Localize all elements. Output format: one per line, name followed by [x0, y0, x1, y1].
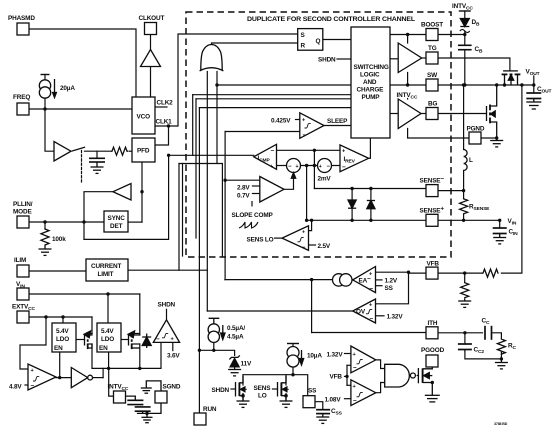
- wire ITH row: [312, 332, 426, 334]
- junction diode left top: [350, 187, 353, 190]
- wire S-R latch R row from OR gate: [212, 43, 298, 48]
- svg-text:RUN: RUN: [203, 406, 217, 413]
- wire TG driver boost rail: [407, 35, 409, 44]
- wire LDO1 gate stub: [76, 339, 85, 341]
- op-amp 4.8V EXTVCC comparator: [28, 364, 56, 390]
- junction EXTVCC comp: [44, 315, 47, 318]
- wire top FET drain to VOUT sense: [501, 85, 522, 273]
- svg-text:3788 BD: 3788 BD: [494, 422, 508, 426]
- svg-text:MODE: MODE: [13, 209, 32, 216]
- svg-text:DUPLICATE FOR SECOND CONTROLLE: DUPLICATE FOR SECOND CONTROLLER CHANNEL: [247, 16, 415, 23]
- resistor R-VFB-upper (horizontal): [482, 269, 498, 277]
- op-amp EA error amplifier (points left): [353, 267, 376, 293]
- current mirror M2: [340, 274, 352, 286]
- wire BG driver input from box: [390, 113, 398, 115]
- junction SENSE- L RSENSE: [462, 189, 465, 192]
- wire RUN bus: [198, 108, 200, 413]
- junction ICMP out drop: [167, 154, 170, 157]
- svg-text:R: R: [301, 43, 306, 50]
- box PFD: [132, 138, 155, 162]
- diode D1 (sense clamp, points down): [348, 200, 356, 208]
- wire sleep comparator minus row: [225, 131, 300, 133]
- dashed box: duplicate second controller channel: [186, 12, 451, 257]
- svg-text:−: −: [342, 164, 346, 171]
- wire PFD filter row: [85, 150, 112, 152]
- svg-text:0.7V: 0.7V: [237, 193, 250, 200]
- wire LDO2 gate stub: [121, 339, 129, 341]
- wire SS row between FETs: [243, 375, 308, 396]
- wire summing to IREV input: [332, 165, 341, 167]
- box LDO2 5.4V: [97, 323, 121, 352]
- glyph hysteresis SLEEP: [305, 124, 311, 128]
- wire PHASMD to VCO top: [29, 29, 136, 97]
- junction RC CC2 ground: [500, 357, 503, 360]
- wire BG row: [421, 113, 426, 115]
- wire PMOS1 top leg: [91, 317, 93, 334]
- wire ILIM row: [29, 270, 86, 272]
- diode D2 (sense clamp, points up): [367, 201, 375, 209]
- wire OV output row: [207, 310, 352, 312]
- wire zener to ground: [234, 367, 236, 370]
- inductor L: [464, 150, 468, 171]
- buffer B2 (pll feedback, points left): [113, 184, 131, 201]
- transistor MBOT (bottom N-channel MOSFET): [487, 85, 497, 138]
- svg-text:SLEEP: SLEEP: [327, 118, 348, 125]
- svg-text:+: +: [296, 164, 299, 170]
- wire SS pin to CSS: [315, 402, 323, 410]
- gate OR (points up, output to R): [201, 45, 222, 71]
- wire COUT stem: [533, 85, 535, 93]
- transistor M-SHDN (SS pulldown): [236, 376, 247, 401]
- wire SHDN comparator output stem: [166, 309, 168, 320]
- box SYNC DET: [104, 211, 128, 232]
- junction CLK1: [167, 124, 170, 127]
- svg-text:PFD: PFD: [137, 148, 150, 155]
- pin FREQ: [17, 103, 29, 115]
- svg-text:ILIM: ILIM: [14, 257, 26, 264]
- wire 0.5uA source bottom to RUN bus: [199, 342, 213, 350]
- pin VIN: [17, 288, 29, 300]
- svg-text:EN: EN: [99, 345, 108, 352]
- wire 4.8V comparator output to inverter: [56, 377, 71, 379]
- wire bus vertical x314.4 to SENSE- row: [313, 150, 315, 188]
- wire CIN stem: [499, 220, 501, 228]
- pin PGND: [469, 132, 481, 144]
- pin INTVCC: [114, 391, 126, 403]
- wire INTVcc feed to BG driver: [407, 98, 409, 101]
- junction 10uA SS row: [291, 373, 294, 376]
- junction VOUT COUT: [532, 83, 535, 86]
- junction RUN 0.5uA: [198, 349, 201, 352]
- junction CB SW node: [463, 83, 466, 86]
- svg-text:VFB: VFB: [330, 374, 343, 381]
- pin SENSE+: [426, 214, 438, 226]
- ground G-SGND-lower: [137, 403, 161, 423]
- junction EXTVCC LDO1: [61, 315, 64, 318]
- wire SHDN FET gate stub: [231, 388, 236, 390]
- wire RC bottom: [500, 352, 502, 360]
- svg-text:Q: Q: [316, 38, 321, 45]
- wire 10uA source to SS row: [292, 367, 294, 375]
- svg-text:−: −: [353, 398, 357, 405]
- inverter bubble: [88, 375, 93, 380]
- op-amp OV comparator (points left): [353, 299, 376, 323]
- wire SENSE- row: [314, 188, 426, 190]
- svg-text:10µA: 10µA: [307, 353, 322, 360]
- pin EXTVCC: [17, 311, 29, 323]
- svg-text:VCO: VCO: [137, 114, 151, 121]
- wire CC to RC: [492, 333, 502, 339]
- resistor R-pll (horizontal): [111, 147, 128, 155]
- wire SW row continuation: [216, 85, 218, 164]
- wire FREQ row to VCO: [29, 108, 132, 110]
- junction VIN CIN: [498, 219, 501, 222]
- arrow 0.5uA: [214, 318, 225, 339]
- wire OR gate left leg from OV comparator: [206, 71, 208, 312]
- svg-text:11V: 11V: [241, 361, 252, 368]
- svg-text:5.4V: 5.4V: [101, 328, 114, 335]
- wire ICMP plus from summing circle: [277, 165, 287, 167]
- junction top FET source: [503, 83, 506, 86]
- svg-text:PHASMD: PHASMD: [8, 15, 35, 22]
- svg-text:AND: AND: [363, 79, 377, 86]
- svg-text:−: −: [156, 336, 160, 343]
- wire SHDN into switching logic: [337, 58, 351, 60]
- wire SLEEP output to switching logic: [324, 125, 351, 127]
- op-amp PGOOD comparator A 1.32V: [351, 346, 376, 373]
- wire between summing circles: [301, 165, 318, 167]
- wire PLLIN/MODE row to SYNC DET: [29, 221, 104, 223]
- wire CC2 bottom to RC bottom: [465, 352, 502, 359]
- current source I-20uA (lower circle): [39, 87, 50, 98]
- svg-text:SHDN: SHDN: [318, 57, 336, 64]
- wire inverter out riser: [102, 368, 104, 377]
- wire CLK1 net to S row: [155, 34, 298, 126]
- junction SGND lower: [145, 412, 148, 415]
- wire buffer to VCO top: [150, 67, 152, 98]
- wire SENS LO FET drain: [285, 375, 287, 385]
- wire LDO1 top feed: [62, 317, 64, 323]
- svg-text:2mV: 2mV: [318, 176, 332, 183]
- wire OR gate right leg to SW row: [216, 71, 218, 86]
- junction ICMP IREV row: [313, 149, 316, 152]
- transistor MTOP (top N-channel MOSFET): [502, 71, 521, 85]
- capacitor C-INTVCC bypass: [126, 396, 151, 413]
- ground G-RC: [495, 359, 508, 369]
- wire SW row right of pin: [438, 84, 534, 86]
- wire INTVCC rail: [92, 342, 161, 368]
- wire SYNC DET output: [128, 221, 142, 223]
- ground G-SGND-upper: [141, 381, 161, 393]
- glyph hysteresis PGOOD A: [357, 359, 363, 363]
- svg-text:CLKOUT: CLKOUT: [139, 15, 165, 22]
- wire CLK2 stub: [155, 106, 167, 108]
- junction inductor SW node: [462, 83, 465, 86]
- arrow slope comp into summing: [291, 173, 295, 179]
- junction PLLIN 100k: [43, 220, 46, 223]
- junction FREQ/20uA: [43, 107, 46, 110]
- junction summing mid a: [305, 164, 308, 167]
- wire LDO2 EN stub: [108, 352, 110, 368]
- svg-text:OV: OV: [356, 309, 366, 316]
- svg-text:SW: SW: [427, 72, 438, 79]
- junction rail PMOS2: [138, 367, 141, 370]
- ground G-100k: [39, 246, 52, 255]
- wire BG pin to bottom FET gate: [438, 113, 487, 115]
- svg-text:−: −: [271, 148, 275, 155]
- pin VFB: [426, 267, 438, 279]
- resistor RSENSE: [460, 198, 468, 214]
- ground G-CIN: [493, 234, 506, 244]
- ground G-PGOOD-FET: [425, 395, 440, 402]
- current mirror M1: [333, 274, 345, 286]
- wire bus row y107.6: [199, 107, 351, 109]
- wire row B branch: [182, 164, 184, 257]
- wire DB diode top feed: [464, 11, 466, 18]
- svg-text:−: −: [370, 316, 374, 323]
- pin SS: [303, 396, 315, 408]
- svg-text:TG: TG: [428, 45, 437, 52]
- resistor R-VFB-lower: [461, 282, 469, 298]
- junction 0.5uA zener: [212, 349, 215, 352]
- junction VFB comparators: [345, 375, 348, 378]
- wire filter cap stem: [96, 151, 98, 158]
- current source I-RUN 0.5uA (lower circle): [208, 331, 219, 342]
- wire DB to boost node: [464, 32, 466, 46]
- wire PGND pin to bottom FET source: [481, 137, 497, 139]
- wire SENS LO 2.5V stub: [309, 244, 316, 246]
- wire RSENSE bottom to VIN row: [463, 214, 465, 220]
- capacitor COUT: [526, 93, 541, 99]
- wire ITH drop: [311, 280, 313, 333]
- wire INTVCC pin riser: [109, 368, 114, 396]
- transistor M-PGOOD (open drain): [418, 367, 432, 395]
- ground G-CSS: [316, 414, 329, 424]
- diode DB (INTVCC bootstrap): [460, 19, 470, 33]
- svg-text:L: L: [469, 157, 473, 164]
- wire ICMP output riser: [192, 95, 194, 156]
- svg-text:2.8V: 2.8V: [237, 185, 250, 192]
- wire LDO1 EN stub: [59, 352, 61, 378]
- junction 4.8V out EN: [58, 376, 61, 379]
- wire SENSE+ row to VIN node: [438, 219, 500, 221]
- wire CLKOUT pin to buffer: [150, 35, 152, 50]
- junction boost rail TG driver: [406, 33, 409, 36]
- svg-text:3.6V: 3.6V: [167, 353, 180, 360]
- wire PMOS2 drain to rail: [139, 344, 141, 368]
- box SWITCHING LOGIC AND CHARGE PUMP: [351, 27, 390, 138]
- svg-text:CURRENT: CURRENT: [91, 263, 121, 270]
- amp SLOPE COMP: [260, 177, 284, 203]
- junction DB CB node: [463, 33, 466, 36]
- transistor P1 (EXTVCC PMOS pass): [84, 331, 92, 349]
- ground G-SHDN-FET: [237, 401, 250, 407]
- ground G-PGND: [490, 138, 503, 147]
- wire PGOOD comp B to NAND: [376, 383, 385, 393]
- current source I-20uA (upper circle): [39, 80, 50, 91]
- wire NAND out to PGOOD FET gate: [417, 375, 418, 377]
- svg-text:2.5V: 2.5V: [318, 243, 331, 250]
- svg-text:SENS: SENS: [254, 385, 272, 392]
- junction rail EN2: [107, 367, 110, 370]
- component shapes: [17, 23, 481, 426]
- junction RSENSE VIN row: [462, 219, 465, 222]
- svg-text:SENS LO: SENS LO: [247, 237, 274, 244]
- glyph hysteresis SENS LO: [298, 237, 304, 241]
- summing node S2 2mV: [318, 159, 332, 173]
- ground G-COUT: [526, 99, 541, 110]
- wire buffer2 output down: [84, 192, 113, 240]
- wire slope comp 0.7V stub: [253, 193, 260, 195]
- svg-text:1.08V: 1.08V: [325, 397, 342, 404]
- svg-text:LIMIT: LIMIT: [98, 271, 114, 278]
- svg-text:PLLIN/: PLLIN/: [13, 201, 33, 208]
- junction ITH CC: [463, 331, 466, 334]
- op-amp SENS LO comparator (points left): [282, 226, 309, 251]
- svg-text:BOOST: BOOST: [421, 22, 443, 29]
- resistor RC: [497, 339, 505, 355]
- glyph hysteresis 4.8V: [33, 377, 39, 381]
- wire IREV output to switching logic bottom: [369, 138, 371, 158]
- wire bus row y94.7: [193, 94, 351, 96]
- svg-text:CLK2: CLK2: [157, 100, 174, 107]
- tick INTVCC supply bar (DB): [459, 10, 471, 12]
- svg-text:20µA: 20µA: [60, 85, 75, 92]
- svg-text:VFB: VFB: [427, 261, 440, 268]
- glyph slope comp bottom input hook: [251, 201, 253, 207]
- wire TG driver sw rail: [407, 73, 409, 86]
- diode Z1 zener 11V: [229, 355, 239, 367]
- buffer U-CLKOUT (triangle up): [141, 50, 161, 67]
- junction SENS LO drop: [310, 219, 313, 222]
- wire zener feed: [214, 350, 235, 355]
- wire TG row: [422, 57, 426, 59]
- wire bus vertical x196: [195, 99, 197, 238]
- wire VOUT tick: [533, 76, 535, 85]
- wire TG driver input stub: [390, 58, 398, 60]
- wire EXTVCC row: [29, 316, 92, 318]
- capacitor CSS: [316, 410, 330, 414]
- wire ITH pin to compensation: [438, 332, 483, 334]
- junction SENS LO FET body: [284, 394, 288, 398]
- svg-text:LOGIC: LOGIC: [360, 72, 380, 79]
- svg-text:−: −: [353, 365, 357, 372]
- wire 1.32V stub to PGOOD comparator: [345, 353, 351, 355]
- wire SENSE- pin to inductor junction: [438, 190, 464, 192]
- wire CURRENT LIMIT output: [128, 269, 207, 271]
- svg-text:SHDN: SHDN: [158, 302, 176, 309]
- wire 4.8V ref stub: [25, 384, 28, 386]
- svg-text:−: −: [370, 286, 374, 293]
- pin SGND: [155, 391, 167, 403]
- wire SENS LO output to label: [275, 237, 283, 239]
- arrow 10uA: [299, 350, 303, 365]
- ground G-pll (loop filter): [89, 158, 105, 173]
- wire VFB divider lower resistor stem: [464, 273, 466, 282]
- wire PMOS2 top feed: [139, 294, 141, 335]
- wire inductor to sense junction: [463, 170, 465, 198]
- wire VFB label bracket: [345, 375, 348, 377]
- wire dashed switch control: [81, 151, 83, 183]
- capacitor CC2: [458, 344, 472, 352]
- driver TG: [398, 43, 422, 73]
- wire EA SS stub: [376, 285, 383, 287]
- pin ITH: [426, 327, 438, 339]
- wire summing to SENSE+ drop: [306, 166, 308, 221]
- resistor R-100k (vertical): [41, 228, 49, 246]
- wire EA 1.2V stub: [376, 279, 383, 281]
- wire BOOST pin to bootstrap node: [438, 34, 465, 36]
- wire PMOS2 legs link: [132, 334, 140, 336]
- svg-text:SHDN: SHDN: [212, 387, 230, 394]
- svg-text:PUMP: PUMP: [362, 94, 381, 101]
- junction diode right bottom: [369, 219, 372, 222]
- tick 10uA supply bar: [287, 343, 299, 345]
- ground G-VFB-divider: [458, 298, 471, 307]
- wire VFB pin row: [409, 272, 427, 274]
- wire 3.6V ref stub: [172, 342, 174, 350]
- svg-text:−: −: [303, 132, 307, 139]
- wire VIN row to LDOs: [29, 293, 140, 295]
- svg-text:0.5µA/: 0.5µA/: [227, 325, 245, 332]
- wire TG pin to top FET gate: [438, 58, 510, 71]
- wire 20uA source to FREQ row: [44, 98, 46, 109]
- junction PLLIN buffer2: [82, 220, 85, 223]
- glyph hysteresis PGOOD B: [357, 392, 363, 396]
- junction EA row ITH drop: [310, 278, 313, 281]
- op-amp SLEEP comparator 0.425V: [300, 113, 324, 139]
- tick 0.5uA supply bar: [209, 317, 220, 319]
- wire slope comp output into summing circle: [284, 174, 294, 189]
- glyph sawtooth slope comp: [239, 222, 258, 228]
- wire BOOST row from switching logic: [390, 34, 426, 36]
- wire SHDN FET drain: [242, 375, 244, 385]
- svg-text:SLOPE COMP: SLOPE COMP: [232, 212, 274, 219]
- svg-text:−: −: [31, 383, 35, 390]
- capacitor CIN: [493, 228, 507, 234]
- svg-text:100k: 100k: [52, 236, 66, 243]
- wire CLK1 feedback to PFD: [155, 126, 169, 145]
- junction buffer2 input: [140, 190, 143, 193]
- svg-text:SWITCHING: SWITCHING: [354, 64, 389, 71]
- capacitor CB bootstrap: [458, 45, 472, 49]
- svg-text:5.4V: 5.4V: [56, 328, 69, 335]
- pin BG: [426, 108, 438, 120]
- wire SHDN FET source to ground: [242, 394, 244, 402]
- svg-text:PGOOD: PGOOD: [421, 347, 445, 354]
- svg-text:SGND: SGND: [163, 384, 181, 391]
- svg-text:DET: DET: [110, 223, 123, 230]
- wire row B riser to current limit: [178, 164, 180, 271]
- junction PGOOD FET source: [431, 381, 434, 384]
- ground G-zener 11V: [228, 370, 241, 376]
- op-amp SHDN comparator (points up): [153, 320, 179, 343]
- op-amp IREV comparator: [340, 145, 369, 172]
- wire 0.425V ref stub: [296, 119, 300, 121]
- wire bus vertical x225 to EA row: [224, 132, 226, 280]
- junction VIN LDO2: [106, 292, 109, 295]
- junction VFB pin EA: [407, 271, 410, 274]
- svg-text:FREQ: FREQ: [13, 94, 30, 101]
- pin PLLIN/MODE: [17, 216, 29, 228]
- inverter after 4.8V comparator: [71, 368, 87, 388]
- wire BG driver to PGND row: [408, 129, 469, 139]
- svg-text:EN: EN: [54, 345, 63, 352]
- svg-text:1.2V: 1.2V: [385, 278, 398, 285]
- wire SENS LO FET gate stub: [273, 388, 278, 390]
- svg-text:+: +: [302, 230, 305, 236]
- wire VFB junction to OV input: [376, 272, 409, 304]
